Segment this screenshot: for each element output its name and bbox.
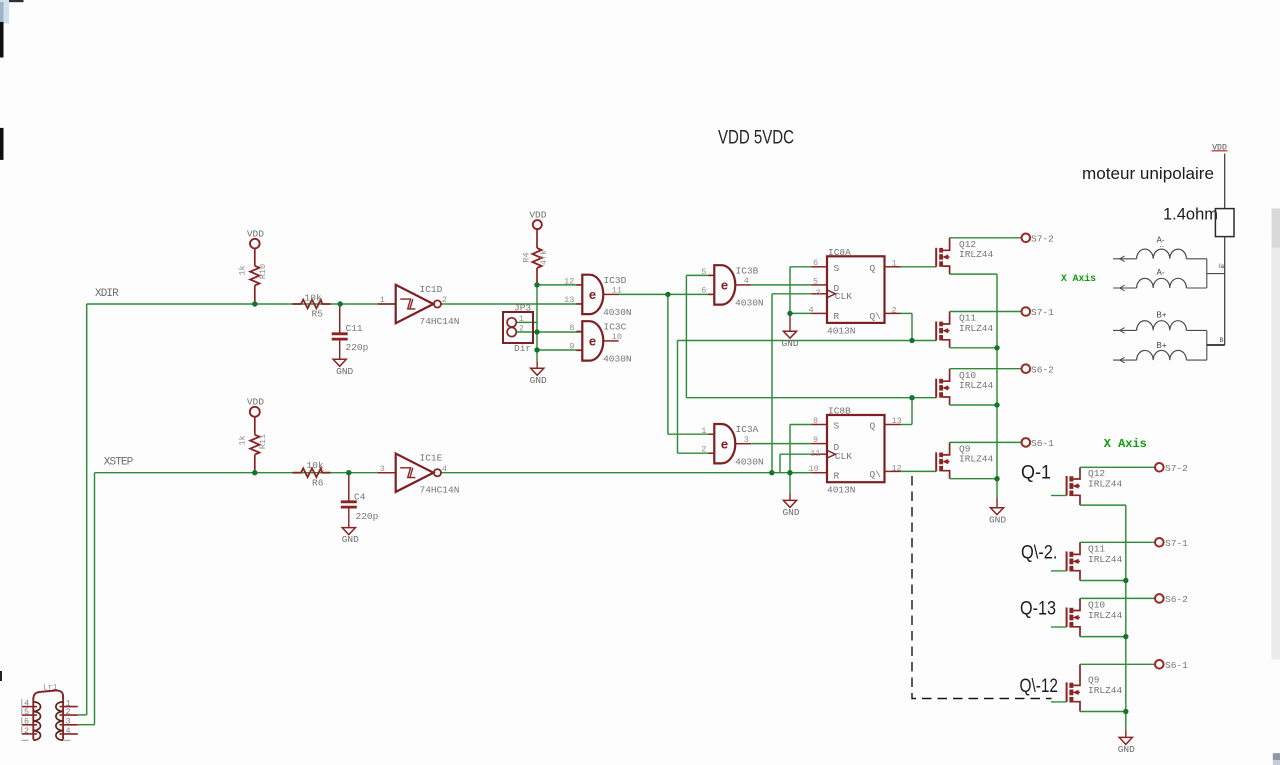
svg-text:Q\-2.: Q\-2. bbox=[1021, 542, 1058, 563]
svg-text:5: 5 bbox=[813, 277, 818, 287]
svg-text:IC8B: IC8B bbox=[828, 406, 851, 417]
svg-text:IRLZ44: IRLZ44 bbox=[959, 249, 994, 260]
svg-text:1k: 1k bbox=[238, 435, 248, 445]
svg-text:5: 5 bbox=[701, 267, 706, 277]
svg-text:VDD: VDD bbox=[529, 209, 546, 220]
svg-text:4030N: 4030N bbox=[735, 457, 764, 468]
svg-text:GND: GND bbox=[336, 366, 353, 377]
svg-text:R11: R11 bbox=[258, 434, 268, 449]
svg-text:S: S bbox=[834, 421, 840, 432]
svg-text:3: 3 bbox=[380, 464, 385, 474]
svg-text:2: 2 bbox=[24, 726, 29, 736]
svg-text:B: B bbox=[1220, 338, 1224, 344]
svg-text:6: 6 bbox=[813, 258, 818, 268]
svg-text:Q: Q bbox=[870, 421, 876, 432]
svg-text:74HC14N: 74HC14N bbox=[420, 316, 460, 327]
svg-text:IRLZ44: IRLZ44 bbox=[1088, 685, 1123, 696]
svg-text:1: 1 bbox=[380, 295, 385, 305]
svg-text:IC3A: IC3A bbox=[736, 424, 759, 435]
svg-text:4030N: 4030N bbox=[603, 354, 632, 365]
svg-text:GND: GND bbox=[530, 375, 547, 386]
svg-text:8: 8 bbox=[813, 416, 818, 426]
svg-text:13: 13 bbox=[892, 416, 902, 426]
svg-text:74HC14N: 74HC14N bbox=[420, 485, 460, 496]
svg-text:S7-2: S7-2 bbox=[1031, 234, 1054, 245]
svg-text:A-: A- bbox=[1157, 268, 1165, 277]
svg-text:8: 8 bbox=[569, 323, 574, 333]
svg-text:IRLZ44: IRLZ44 bbox=[959, 380, 994, 391]
svg-text:R6: R6 bbox=[312, 478, 324, 489]
svg-text:GND: GND bbox=[1118, 744, 1135, 755]
svg-text:1: 1 bbox=[701, 426, 706, 436]
svg-text:6: 6 bbox=[701, 286, 706, 296]
svg-text:9: 9 bbox=[569, 342, 574, 352]
svg-text:moteur unipolaire: moteur unipolaire bbox=[1082, 164, 1214, 183]
svg-text:2: 2 bbox=[701, 444, 706, 454]
svg-text:12: 12 bbox=[892, 463, 902, 473]
svg-text:IRLZ44: IRLZ44 bbox=[959, 454, 994, 465]
svg-text:GND: GND bbox=[781, 338, 798, 349]
svg-text:1k: 1k bbox=[238, 265, 248, 275]
svg-text:XSTEP: XSTEP bbox=[104, 457, 134, 469]
svg-text:B+: B+ bbox=[1157, 341, 1167, 350]
svg-text:9: 9 bbox=[813, 435, 818, 445]
svg-text:XDIR: XDIR bbox=[95, 288, 119, 300]
svg-text:IRLZ44: IRLZ44 bbox=[1088, 554, 1123, 565]
svg-text:Q11: Q11 bbox=[1088, 544, 1105, 555]
svg-text:10k: 10k bbox=[305, 292, 322, 303]
svg-text:Q\: Q\ bbox=[870, 311, 882, 322]
svg-text:2: 2 bbox=[892, 305, 897, 315]
svg-text:Dir: Dir bbox=[514, 343, 531, 354]
svg-text:IC3C: IC3C bbox=[604, 321, 627, 332]
svg-text:1: 1 bbox=[892, 258, 897, 268]
svg-text:Q9: Q9 bbox=[1088, 675, 1100, 686]
svg-text:B+: B+ bbox=[1157, 310, 1167, 319]
svg-text:4: 4 bbox=[66, 726, 71, 736]
svg-text:S6-1: S6-1 bbox=[1031, 438, 1054, 449]
svg-text:R10: R10 bbox=[258, 264, 268, 279]
svg-text:220p: 220p bbox=[346, 342, 369, 353]
svg-text:CLK: CLK bbox=[835, 451, 852, 462]
svg-text:13: 13 bbox=[564, 295, 574, 305]
svg-text:IRLZ44: IRLZ44 bbox=[1088, 479, 1123, 490]
svg-text:11: 11 bbox=[612, 286, 622, 296]
svg-text:5: 5 bbox=[24, 707, 29, 717]
svg-text:IC1D: IC1D bbox=[420, 284, 443, 295]
svg-text:12: 12 bbox=[564, 277, 574, 287]
svg-text:S7-1: S7-1 bbox=[1165, 538, 1188, 549]
svg-text:2: 2 bbox=[66, 707, 71, 717]
svg-text:S7-2: S7-2 bbox=[1165, 463, 1188, 474]
svg-text:Q\-12: Q\-12 bbox=[1020, 676, 1059, 697]
svg-text:VDD: VDD bbox=[247, 397, 264, 408]
svg-text:Q12: Q12 bbox=[1088, 468, 1105, 479]
svg-text:e: e bbox=[589, 287, 596, 302]
svg-text:Ia: Ia bbox=[1219, 264, 1225, 270]
svg-text:R4: R4 bbox=[522, 252, 532, 262]
svg-text:IC3D: IC3D bbox=[604, 275, 627, 286]
svg-text:Q\: Q\ bbox=[870, 469, 882, 480]
svg-text:..: .. bbox=[1160, 240, 1164, 249]
svg-text:S6-2: S6-2 bbox=[1031, 364, 1054, 375]
svg-text:IRLZ44: IRLZ44 bbox=[1088, 610, 1123, 621]
svg-text:R5: R5 bbox=[312, 309, 324, 320]
svg-text:S6-2: S6-2 bbox=[1165, 594, 1188, 605]
svg-text:47k: 47k bbox=[539, 250, 549, 265]
svg-text:S6-1: S6-1 bbox=[1165, 660, 1188, 671]
svg-text:220p: 220p bbox=[356, 511, 379, 522]
svg-text:3: 3 bbox=[744, 435, 749, 445]
svg-text:2: 2 bbox=[519, 325, 524, 334]
svg-text:10: 10 bbox=[612, 332, 622, 342]
svg-text:VDD: VDD bbox=[247, 228, 264, 239]
svg-text:Q-13: Q-13 bbox=[1020, 599, 1056, 620]
svg-text:IC8A: IC8A bbox=[828, 247, 851, 258]
svg-text:2: 2 bbox=[442, 295, 447, 305]
svg-text:R: R bbox=[834, 311, 840, 322]
svg-text:3: 3 bbox=[815, 288, 820, 298]
svg-text:X Axis: X Axis bbox=[1061, 273, 1096, 285]
svg-text:4030N: 4030N bbox=[603, 307, 632, 318]
svg-text:IC3B: IC3B bbox=[736, 265, 759, 276]
svg-text:4: 4 bbox=[809, 305, 814, 315]
svg-text:Q10: Q10 bbox=[1088, 600, 1105, 611]
svg-text:11: 11 bbox=[810, 448, 820, 458]
svg-text:GND: GND bbox=[782, 507, 799, 518]
svg-text:C4: C4 bbox=[354, 491, 366, 502]
svg-text:1.4ohm: 1.4ohm bbox=[1163, 205, 1218, 224]
svg-text:S: S bbox=[834, 263, 840, 274]
svg-text:C11: C11 bbox=[346, 323, 363, 334]
svg-text:1: 1 bbox=[519, 315, 524, 324]
svg-text:Q-1: Q-1 bbox=[1021, 463, 1051, 484]
svg-text:10k: 10k bbox=[307, 460, 324, 471]
svg-text:IRLZ44: IRLZ44 bbox=[959, 323, 994, 334]
svg-text:Q: Q bbox=[870, 263, 876, 274]
svg-text:R: R bbox=[834, 470, 840, 481]
svg-text:X Axis: X Axis bbox=[1104, 438, 1147, 451]
svg-text:4030N: 4030N bbox=[735, 298, 764, 309]
svg-text:4013N: 4013N bbox=[827, 325, 856, 336]
svg-text:GND: GND bbox=[342, 534, 359, 545]
svg-text:e: e bbox=[721, 278, 728, 293]
svg-text:10: 10 bbox=[809, 464, 819, 474]
svg-text:GND: GND bbox=[989, 514, 1006, 525]
svg-text:VDD 5VDC: VDD 5VDC bbox=[718, 127, 794, 149]
svg-text:e: e bbox=[589, 334, 596, 349]
svg-text:CLK: CLK bbox=[835, 291, 852, 302]
svg-text:e: e bbox=[721, 436, 728, 451]
svg-text:S7-1: S7-1 bbox=[1031, 307, 1054, 318]
svg-text:JP3: JP3 bbox=[514, 303, 531, 314]
svg-text:4013N: 4013N bbox=[827, 485, 856, 496]
svg-text:4: 4 bbox=[442, 464, 447, 474]
svg-text:4: 4 bbox=[744, 276, 749, 286]
svg-text:IC1E: IC1E bbox=[420, 453, 443, 464]
